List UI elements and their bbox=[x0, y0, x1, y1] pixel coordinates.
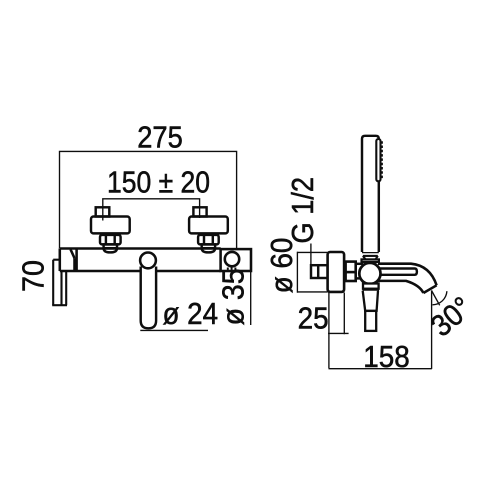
left eccentric union: inlet nipple, escutcheon, hex nut, collar, bulge bbox=[91, 207, 130, 252]
lever shank below body: collar, ring line, taper, ø24 grip tail bbox=[363, 284, 380, 331]
dimension 25: legs and dimension line bbox=[328, 293, 349, 369]
G 1/2 leader line bbox=[310, 244, 312, 273]
spray nozzle teeth bbox=[380, 141, 383, 179]
svg-text:ø 24: ø 24 bbox=[163, 297, 219, 331]
right end cap housing (ø35) with diverter knob and clip ticks bbox=[221, 249, 251, 271]
svg-text:25: 25 bbox=[298, 302, 329, 336]
svg-text:150 ± 20: 150 ± 20 bbox=[107, 165, 210, 199]
30° swivel indicator: radial line and arc bbox=[432, 291, 447, 306]
lever handle (ø24 cylinder, rounded bottom) bbox=[141, 267, 156, 329]
hand shower outline (head and handle) bbox=[362, 136, 379, 252]
svg-text:G 1/2: G 1/2 bbox=[286, 177, 320, 244]
svg-text:70: 70 bbox=[17, 260, 51, 292]
svg-text:ø 35: ø 35 bbox=[217, 268, 251, 325]
svg-text:ø 60: ø 60 bbox=[265, 238, 299, 294]
ø60 wall escutcheon flange (side profile) bbox=[328, 252, 345, 292]
svg-text:275: 275 bbox=[137, 121, 183, 155]
mixer body bar (front view) bbox=[60, 249, 221, 272]
dimension ø35: extension line below right end cap bbox=[250, 272, 252, 325]
hand shower handle end taper into holder bbox=[362, 252, 379, 259]
union locking nut bbox=[346, 262, 356, 281]
dimension ø24: extension line under lever bbox=[140, 329, 208, 331]
dimension 275: extension legs and dimension line bbox=[60, 151, 237, 249]
hand shower spray face strip bbox=[376, 139, 380, 181]
mixer body (side view circle) bbox=[359, 263, 380, 284]
tub spout front profile with 70 mm drop bbox=[52, 260, 67, 306]
curved tub spout with aerator mouth (side view) bbox=[378, 264, 437, 293]
dimension ø60: vertical dimension line and extension lines bbox=[297, 252, 327, 293]
connecting pipe stubs bbox=[344, 264, 363, 279]
lever ball joint bbox=[140, 253, 156, 269]
right eccentric union: inlet nipple, escutcheon, hex nut, collar, bulge bbox=[189, 207, 228, 252]
dimension 158: dimension line and right leg at spout tip bbox=[329, 290, 432, 369]
dimension 150±20: extension legs and dimension line bbox=[103, 199, 200, 221]
hand shower holder collar on top of body bbox=[362, 259, 379, 262]
svg-text:158: 158 bbox=[363, 340, 410, 374]
G 1/2 wall nipple (in-wall connection) bbox=[311, 265, 328, 278]
